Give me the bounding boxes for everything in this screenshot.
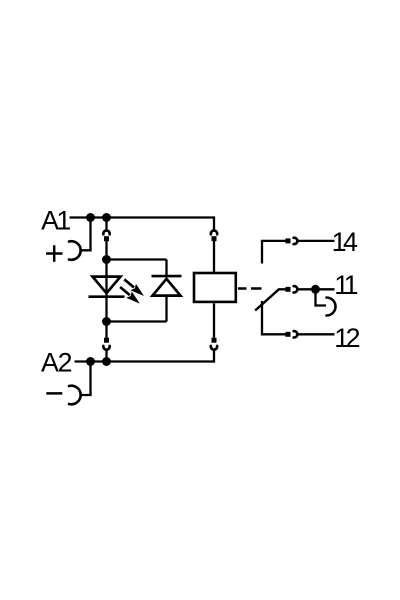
connector socket arc coil bottom (211, 346, 217, 350)
minus sign (46, 392, 62, 395)
connector pin square below A1 socket (104, 236, 109, 241)
wire clamp + to A1 dot (80, 218, 91, 251)
connector pin square 11 (286, 287, 291, 292)
wire coil box down to pin (213, 303, 215, 337)
svg-text:11: 11 (334, 270, 357, 300)
wire bottom of diode branch (107, 320, 167, 322)
node dot top of LED branch (102, 255, 111, 264)
wire 12 to label (297, 333, 334, 335)
wire stub A1 dot to socket (105, 218, 107, 231)
clamp arc of terminal A1 (69, 241, 81, 260)
wire diode branch vertical (165, 260, 167, 322)
svg-text:A1: A1 (41, 205, 70, 235)
wire contact 14 branch (262, 241, 286, 264)
junction dot on A2 LED leg (102, 357, 111, 366)
connector socket arc 12 (294, 331, 298, 337)
wire clamp - to A2 dot (80, 362, 91, 396)
node dot bottom of LED branch (102, 317, 111, 326)
relay coil K1 box (194, 273, 236, 302)
wire 11 dot to clamp (316, 289, 327, 305)
wire contact 12 branch (262, 301, 286, 334)
junction dot on A1 to + clamp (86, 213, 95, 222)
connector socket arc below coil top corner (211, 231, 217, 235)
connector socket arc below A1 dot (103, 231, 109, 235)
connector pin square 12 (286, 332, 291, 337)
connector socket arc 11 (294, 286, 298, 292)
freewheel diode D2 triangle (153, 279, 181, 296)
LED emission arrow 2 (120, 287, 140, 304)
junction dot on 11 (311, 285, 320, 294)
connector pin square coil bottom (212, 338, 217, 343)
svg-text:14: 14 (332, 227, 358, 257)
connector pin square above A2 LED leg (104, 338, 109, 343)
wire top of diode branch (107, 258, 167, 260)
connector pin square 14 (286, 238, 291, 243)
wire LED node down to pin (105, 322, 107, 338)
LED D1 cathode bar (89, 295, 125, 298)
LED emission arrow 1 (124, 279, 144, 296)
freewheel diode D2 cathode bar (152, 275, 182, 278)
junction dot on A1 to LED branch (102, 213, 111, 222)
LED D1 triangle (93, 277, 121, 294)
mechanical link dashed (238, 287, 262, 289)
svg-text:A2: A2 (41, 348, 72, 378)
wire A1 horizontal (70, 216, 215, 218)
wire 14 to label (297, 240, 334, 242)
plus sign (46, 245, 63, 262)
clamp arc of terminal 11 (327, 298, 336, 316)
wire LED vertical (105, 260, 107, 322)
wire corner A1 down to coil connector (213, 216, 215, 230)
svg-text:12: 12 (334, 323, 359, 353)
connector socket arc above A2 LED leg (103, 346, 109, 350)
wire pin down to coil box (213, 241, 215, 272)
wire pin to LED node (105, 241, 107, 260)
wire 11 to label (297, 288, 334, 290)
wire socket down to A2 dot (105, 349, 107, 361)
wire socket down to A2 corner (212, 349, 214, 362)
contact moving arm (255, 289, 285, 310)
clamp arc of terminal A2 (69, 386, 81, 405)
connector pin square coil top (212, 236, 217, 241)
junction dot on A2 to - clamp (86, 357, 95, 366)
connector socket arc 14 (294, 238, 298, 244)
wire A2 horizontal (75, 360, 215, 362)
